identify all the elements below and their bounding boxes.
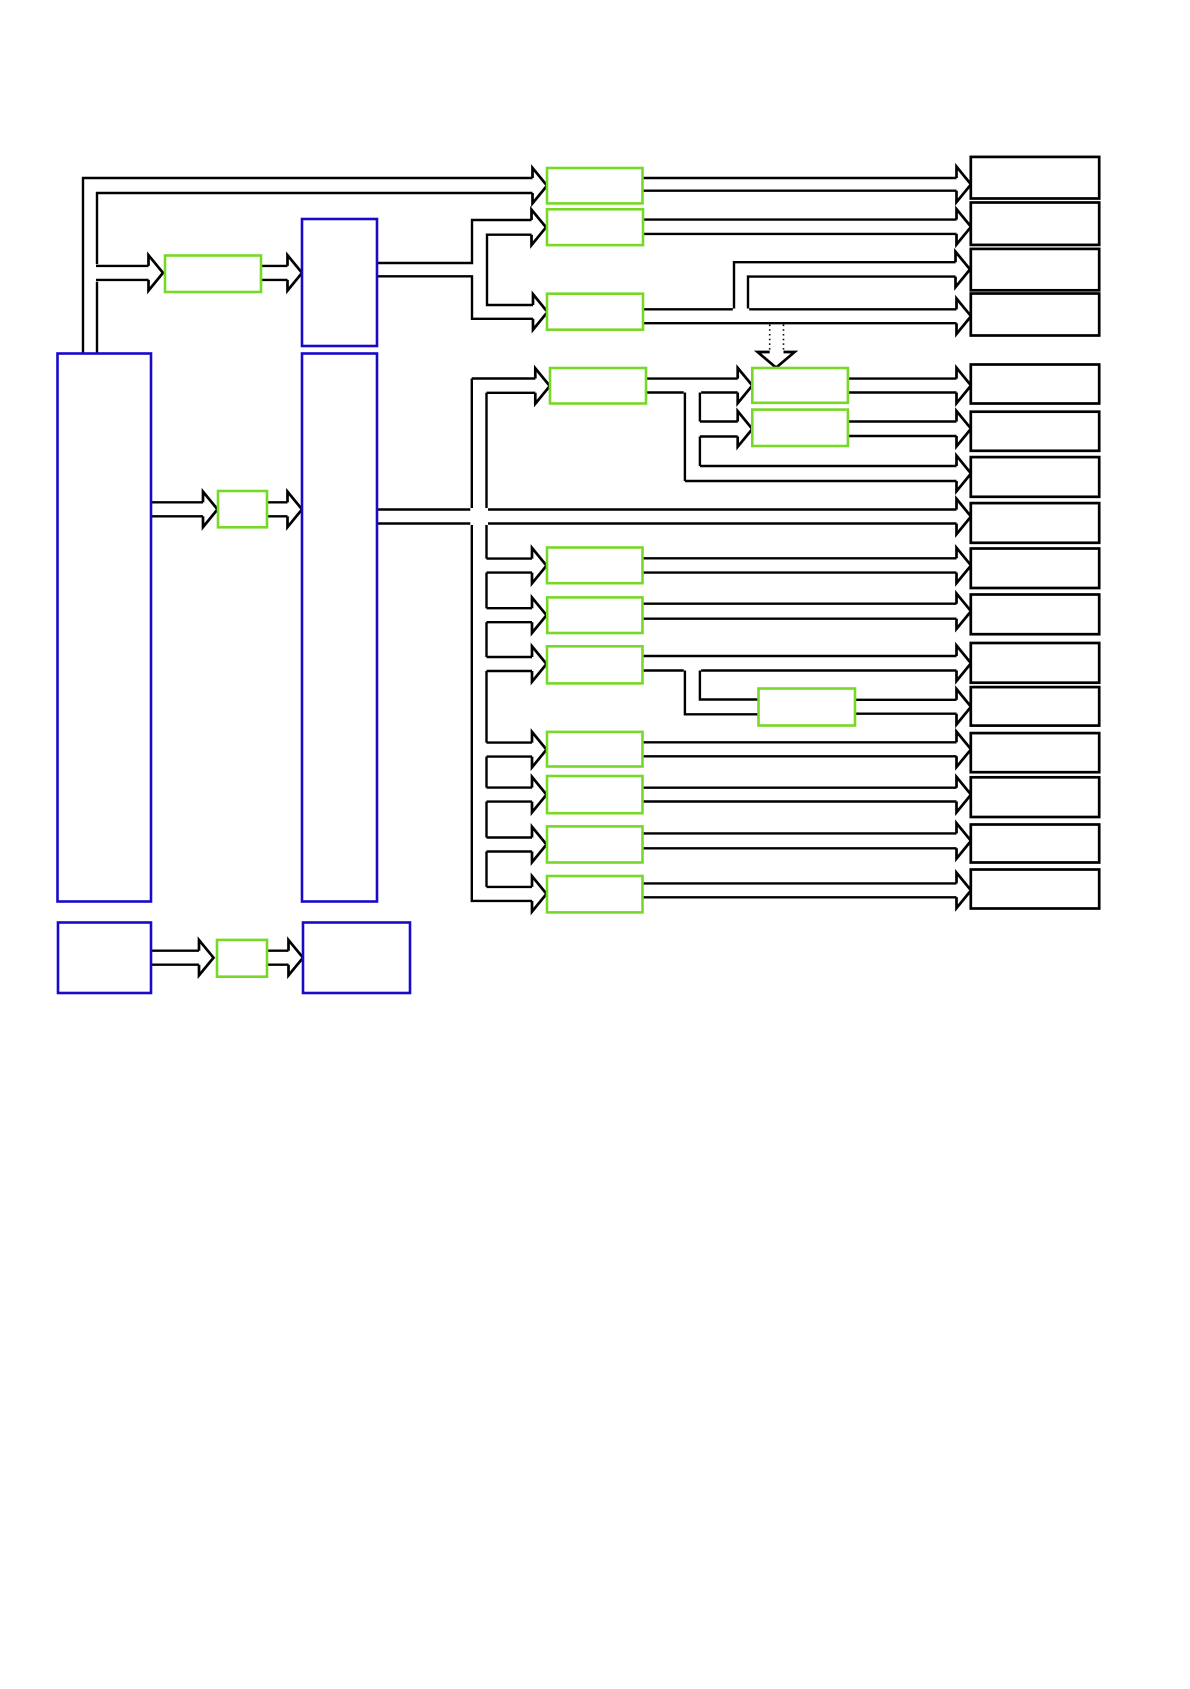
box GI inset bbox=[759, 689, 856, 726]
arrowhead A14 into box GM bbox=[535, 368, 550, 403]
wire W15 from box GM to box GA with branch down bbox=[646, 379, 738, 393]
arrowhead into block K10 bbox=[957, 594, 972, 629]
block K6 bbox=[971, 412, 1099, 451]
block K7 bbox=[971, 457, 1099, 497]
block K15 bbox=[971, 825, 1099, 863]
arrowhead into block K12 bbox=[957, 689, 972, 724]
arrowhead into block K13 bbox=[957, 732, 972, 767]
wire W8 branch up from wire W7 toward block K3 bbox=[734, 262, 956, 308]
wire W2 branch toward box GT bbox=[96, 266, 149, 280]
arrowhead A15 into box GA bbox=[738, 368, 753, 403]
block K9 bbox=[971, 549, 1099, 589]
arrowhead A7 into block K2 bbox=[957, 209, 972, 244]
wire W21 from box G1 to block K9 bbox=[643, 558, 957, 572]
wire W23 from box G3 to block K11 bbox=[643, 656, 957, 671]
wire W19 from box GA to block K5 bbox=[848, 379, 957, 393]
arrowhead A19 into block K6 bbox=[957, 411, 972, 446]
box G1 bbox=[547, 548, 643, 584]
arrowhead A3 into block B2 bbox=[288, 255, 303, 290]
wire W3 from box GT to block B2 bbox=[261, 266, 288, 280]
wire W28 from box G7 to block K16 bbox=[643, 883, 957, 897]
block B5 bottom right bbox=[303, 923, 410, 994]
wire W27 from box G6 to block K15 bbox=[643, 833, 957, 848]
wire W31 from box GS2 to block B5 bbox=[267, 951, 289, 965]
arrowhead A21 into block B5 bbox=[289, 940, 304, 975]
block K11 bbox=[971, 643, 1099, 683]
arrowhead into block K15 bbox=[957, 823, 972, 858]
wire W22 from box G2 to block K10 bbox=[643, 604, 957, 619]
block K14 bbox=[971, 777, 1099, 817]
arrowhead A10 down into box GA top edge bbox=[758, 352, 795, 368]
box GS2 small bottom bbox=[217, 940, 267, 977]
block B4 bottom left bbox=[58, 923, 151, 994]
wire W24 from box GI to block K12 bbox=[855, 700, 957, 714]
arrowhead A17 into block K7 bbox=[957, 456, 972, 492]
block B1 tall left bbox=[58, 354, 152, 902]
box G7 bbox=[547, 876, 643, 912]
arrowhead A8 into block K4 bbox=[957, 299, 972, 335]
box G4 bbox=[547, 732, 643, 767]
wire W16 branch verticals down from wire W15 bbox=[685, 393, 700, 482]
arrowhead A16 into box GB bbox=[738, 411, 753, 447]
block K1 bbox=[971, 157, 1099, 199]
wire W5 from box GR1 to block K1 bbox=[643, 178, 957, 191]
block K12 bbox=[971, 687, 1099, 726]
wire W13 trunk vertical with arm toward box GM bbox=[472, 379, 536, 901]
arrowhead A1 into box GR1 bbox=[533, 168, 548, 203]
box GR2 bbox=[547, 209, 643, 245]
wire W26 from box G5 to block K14 bbox=[643, 788, 957, 802]
wire W30 from block B4 to box GS2 bbox=[151, 951, 199, 965]
arrowhead A6 into block K1 bbox=[957, 167, 972, 202]
box GS1 small bbox=[218, 491, 267, 527]
arrowhead A12 into block B3 bbox=[288, 492, 303, 527]
box GR3 bbox=[547, 294, 643, 330]
box GR1 bbox=[547, 168, 643, 203]
wire W4 from block B2 splitting to boxes GR2 and GR3 bbox=[377, 220, 533, 319]
arrowhead A4 into box GR2 bbox=[532, 210, 547, 246]
box GM bbox=[550, 368, 646, 404]
block K5 bbox=[971, 365, 1099, 404]
block K2 bbox=[971, 203, 1099, 245]
block K10 bbox=[971, 595, 1099, 635]
arrowhead A9 into block K3 bbox=[956, 252, 971, 287]
arrowhead A11 into box GS1 bbox=[203, 492, 218, 527]
wire W10 from block B1 to box GS1 bbox=[151, 502, 203, 516]
box GT bbox=[165, 256, 261, 293]
box G6 bbox=[547, 826, 643, 862]
block B2 upper middle bbox=[302, 219, 377, 346]
box G2 bbox=[547, 597, 642, 633]
wire W11 from box GS1 to block B3 bbox=[267, 502, 288, 516]
wire W17 arm toward box GB bbox=[700, 422, 738, 437]
block B3 tall middle bbox=[302, 354, 377, 902]
box G5 bbox=[547, 776, 643, 813]
wire W18 arm toward block K7 bbox=[685, 466, 957, 481]
box G3 bbox=[547, 646, 643, 683]
arrowhead into block K11 bbox=[957, 646, 972, 681]
wire W20 from box GB to block K6 bbox=[848, 422, 957, 437]
arrowhead into block K16 bbox=[957, 873, 972, 908]
box GB bbox=[752, 410, 848, 446]
arrowhead A13 into block K8 bbox=[957, 499, 972, 534]
wire W9 dotted drop from wire W7 toward box GA bbox=[770, 325, 784, 352]
wire W14 comb teeth with arrowheads into boxes G1 G2 G3 G4 G5 G6 G7 bbox=[487, 548, 547, 912]
wire W6 from box GR2 to block K2 bbox=[643, 220, 957, 234]
wire W1 from block B1 top edge up and right toward box GR1 bbox=[83, 178, 533, 354]
block K16 bbox=[971, 870, 1099, 909]
wire W25 from box G4 to block K13 bbox=[643, 742, 957, 756]
wire W12 from block B3 to block K8 bbox=[377, 510, 957, 524]
arrowhead into block K14 bbox=[957, 777, 972, 812]
arrowhead A20 into box GS2 bbox=[199, 940, 214, 975]
block K3 bbox=[971, 249, 1099, 290]
arrowhead A18 into block K5 bbox=[957, 368, 972, 403]
box GA bbox=[752, 368, 848, 403]
wire W29 branch from wire W23 into box GI bbox=[685, 671, 759, 715]
block K8 bbox=[971, 503, 1099, 543]
arrowhead A2 into box GT bbox=[149, 255, 164, 290]
arrowhead A5 into box GR3 bbox=[533, 294, 548, 330]
wire W7 from box GR3 to block K4 bbox=[643, 309, 957, 323]
block K4 bbox=[971, 294, 1099, 336]
arrowhead into block K9 bbox=[957, 548, 972, 583]
block K13 bbox=[971, 733, 1099, 772]
